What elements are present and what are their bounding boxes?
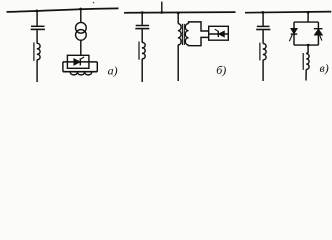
- capacitor C3 plate bottom: [256, 29, 270, 31]
- bus B (scheme b): [124, 11, 236, 14]
- transformer T2 secondary winding: [185, 24, 188, 45]
- wire loop left side: [62, 62, 64, 72]
- capacitor C1 plate bottom: [31, 28, 45, 30]
- capacitor C1 plate top: [31, 25, 45, 27]
- reactor L5 core line: [302, 53, 304, 70]
- thyristor VS1 gate: [80, 57, 84, 59]
- bus A (scheme a): [7, 8, 119, 12]
- wire loop to reactor L5: [306, 45, 308, 54]
- svg-text:а): а): [108, 64, 118, 78]
- thyristor VS1 cathode bar: [79, 58, 81, 65]
- TCR loop top: [294, 21, 318, 23]
- transformer T1 primary circle: [76, 22, 87, 33]
- node B0 junction dot: [160, 11, 163, 14]
- scan speck: [93, 2, 95, 4]
- feeder stub above bus: [161, 2, 163, 13]
- thyristor VS4 cathode bar: [314, 28, 323, 30]
- thyristor VS3 triangle (down): [291, 29, 297, 34]
- wire below L3: [141, 59, 143, 82]
- thyristor VS2 gate: [215, 29, 219, 31]
- wire A1 bus to capacitor: [36, 11, 38, 26]
- wire B1 bus to capacitor: [141, 13, 143, 25]
- TCR loop bottom: [294, 44, 318, 46]
- reactor L5 winding: [306, 54, 309, 70]
- node B1 junction dot: [141, 11, 144, 14]
- wire loop bottom: [63, 71, 97, 73]
- thyristor VS4 gate: [320, 35, 322, 41]
- transformer T2 primary winding: [178, 24, 181, 45]
- transformer T2 core lines: [181, 24, 183, 45]
- capacitor C2 plate bottom: [135, 28, 149, 30]
- reactor L3 core line: [138, 42, 140, 60]
- wire U2 internal link: [209, 33, 229, 35]
- thyristor VS1 triangle: [74, 59, 80, 65]
- node C3 loop bottom junction: [307, 44, 310, 47]
- wire T1 to converter U1: [80, 40, 82, 55]
- wire T2 secondary bottom lead: [189, 37, 209, 45]
- reactor L2 scallops: [70, 72, 92, 75]
- wire C3 to reactor L4: [262, 30, 264, 43]
- thyristor VS4 triangle (up): [315, 29, 323, 35]
- wire B2 bus to transformer T2: [177, 13, 179, 24]
- node A2 junction dot: [79, 8, 82, 11]
- node B2 junction dot: [177, 12, 180, 15]
- reactor L3 winding: [142, 42, 145, 59]
- node C1 junction dot: [262, 11, 265, 14]
- reactor L1 core line: [33, 42, 35, 60]
- transformer T1 secondary circle: [76, 30, 87, 41]
- thyristor VS3 cathode bar: [291, 33, 298, 35]
- converter U2 box: [209, 26, 229, 40]
- wire C1 to reactor L1: [36, 30, 38, 43]
- wire below T2 primary: [177, 45, 179, 81]
- thyristor VS2 triangle: [219, 31, 224, 36]
- node C2 junction dot: [307, 11, 310, 14]
- wire U1 internal dc link: [63, 61, 97, 63]
- wire C1 bus to capacitor: [262, 12, 264, 25]
- svg-text:б): б): [216, 63, 226, 77]
- wire loop right side: [96, 62, 98, 72]
- wire A2 bus to transformer T1: [80, 9, 82, 23]
- reactor L4 core line: [259, 43, 261, 61]
- capacitor C2 plate top: [136, 25, 149, 27]
- wire C2 to reactor L3: [141, 29, 143, 42]
- wire T2 secondary top lead: [189, 22, 209, 31]
- reactor L1 winding: [37, 43, 40, 60]
- wire below L5: [305, 69, 307, 80]
- thyristor VS3 gate: [289, 35, 292, 42]
- wire below L1: [36, 60, 38, 82]
- thyristor VS2 cathode bar: [217, 31, 219, 37]
- reactor L4 winding: [263, 44, 266, 61]
- bus C (scheme v): [245, 12, 331, 13]
- converter U1 box: [67, 55, 89, 68]
- wire below L4: [262, 60, 264, 81]
- thyristor VS4 branch right: [317, 22, 319, 45]
- node A1 junction dot: [36, 10, 39, 13]
- wire C2 bus to TCR loop: [307, 12, 309, 22]
- thyristor VS3 branch left: [293, 22, 295, 45]
- capacitor C3 plate top: [257, 25, 270, 27]
- svg-text:в): в): [320, 61, 329, 75]
